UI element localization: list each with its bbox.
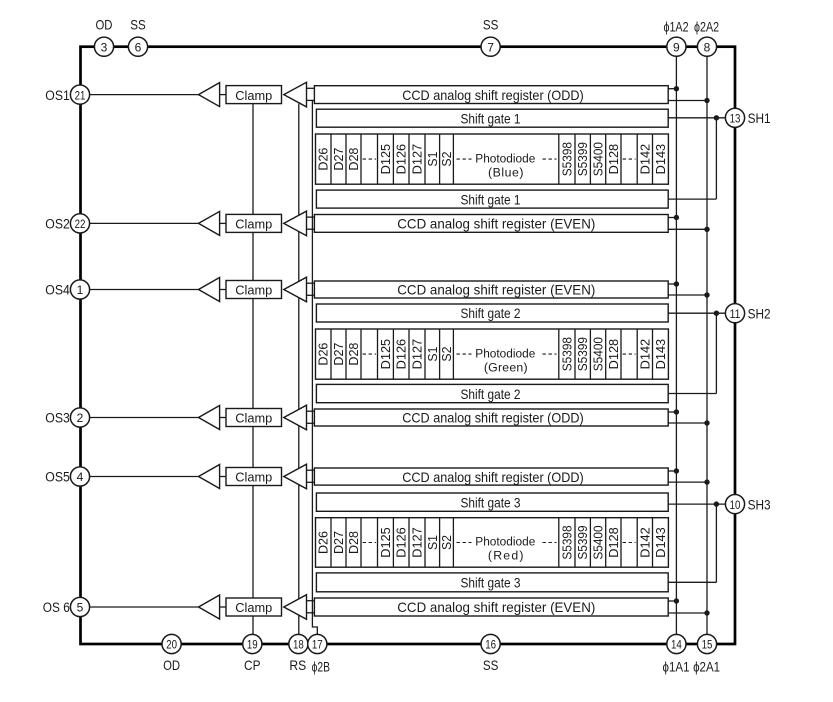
junction dot ϕ1 register 4 xyxy=(674,409,679,414)
svg-text:S2: S2 xyxy=(439,152,454,167)
svg-text:Clamp: Clamp xyxy=(235,283,272,298)
wire ϕ1A bus (pin 9 to pin 14) xyxy=(675,47,677,644)
svg-text:D27: D27 xyxy=(331,148,346,171)
amplifier A2a (output) xyxy=(199,211,220,235)
shift gate box SG2a xyxy=(316,304,668,322)
svg-text:D26: D26 xyxy=(316,343,331,366)
svg-text:Photodiode: Photodiode xyxy=(475,535,535,549)
wire SH2 vertical connector xyxy=(715,313,717,393)
svg-text:D127: D127 xyxy=(410,144,425,175)
pin 22 (OS2) xyxy=(70,214,89,233)
wire ϕ2B stub register 4 xyxy=(307,422,316,424)
svg-text:S5399: S5399 xyxy=(575,142,590,176)
wire output line OS2 xyxy=(90,222,199,224)
amplifier A2b (charge detection) xyxy=(284,211,307,236)
wire signal stub register 2 xyxy=(307,216,316,218)
wire ϕ1 stub register 5 xyxy=(668,470,676,472)
amplifier A3b (charge detection) xyxy=(284,277,307,302)
svg-text:ϕ1A1: ϕ1A1 xyxy=(663,659,690,674)
amplifier A4a (output) xyxy=(199,406,220,430)
pin 4 (OS5) xyxy=(70,467,89,486)
wire SH2 stub from upper shift gate xyxy=(668,312,725,314)
svg-text:4: 4 xyxy=(77,470,84,484)
svg-text:Photodiode: Photodiode xyxy=(475,151,535,165)
wire SH3 vertical connector xyxy=(715,504,717,582)
svg-text:17: 17 xyxy=(312,638,323,652)
svg-text:6: 6 xyxy=(135,40,142,54)
pin 1 (OS4) xyxy=(70,280,89,299)
svg-text:S5398: S5398 xyxy=(559,525,574,559)
svg-text:Clamp: Clamp xyxy=(235,88,272,103)
amplifier A3a (output) xyxy=(199,278,220,302)
svg-text:21: 21 xyxy=(75,88,86,102)
wire ϕ2 stub register 1 xyxy=(668,100,707,102)
svg-text:16: 16 xyxy=(485,638,496,652)
svg-text:D127: D127 xyxy=(410,339,425,370)
pin 6 (SS) xyxy=(128,37,147,56)
svg-text:CCD analog shift register (ODD: CCD analog shift register (ODD) xyxy=(402,88,584,103)
svg-text:Photodiode: Photodiode xyxy=(475,346,535,360)
shift gate box SG3a xyxy=(316,493,668,511)
junction dot ϕ2 register 1 xyxy=(704,98,709,103)
svg-text:OS3: OS3 xyxy=(45,411,70,426)
amplifier A5b (charge detection) xyxy=(284,464,307,489)
svg-text:S5400: S5400 xyxy=(591,525,606,559)
svg-text:20: 20 xyxy=(166,638,177,652)
CCD register box R6 xyxy=(314,598,668,616)
svg-text:D143: D143 xyxy=(653,339,668,370)
wire ϕ2B stub register 2 xyxy=(307,228,316,230)
svg-text:D126: D126 xyxy=(394,144,409,175)
pin 9 (ϕ1A2) xyxy=(667,37,686,56)
svg-text:OS4: OS4 xyxy=(45,283,70,298)
wire ϕ1 stub register 2 xyxy=(668,217,676,219)
svg-text:CCD analog shift register (EVE: CCD analog shift register (EVEN) xyxy=(397,217,595,232)
wire ϕ1 stub register 3 xyxy=(668,283,676,285)
junction dot ϕ1 register 2 xyxy=(674,215,679,220)
svg-text:CCD analog shift register (ODD: CCD analog shift register (ODD) xyxy=(402,470,584,485)
wire ϕ1 stub register 4 xyxy=(668,411,676,413)
svg-text:(Red): (Red) xyxy=(488,549,524,563)
svg-text:Shift gate 3: Shift gate 3 xyxy=(461,576,521,591)
wire ϕ2A bus (pin 8 to pin 15) xyxy=(706,47,708,644)
photodiode array row (Blue) xyxy=(316,134,669,184)
wire SH1 stub from upper shift gate xyxy=(668,117,725,119)
amplifier A1a (output) xyxy=(199,83,220,107)
wire signal stub register 5 xyxy=(307,469,316,471)
svg-text:SS: SS xyxy=(483,658,499,673)
svg-text:CCD analog shift register (EVE: CCD analog shift register (EVEN) xyxy=(397,283,595,298)
svg-text:D142: D142 xyxy=(637,527,652,558)
clamp block Clamp4 xyxy=(226,409,282,427)
pin 5 (OS 6) xyxy=(70,597,89,616)
wire CP bus (clamps to pin 19) xyxy=(252,104,254,644)
svg-text:S2: S2 xyxy=(439,535,454,550)
pin 18 (RS) xyxy=(289,634,308,653)
svg-text:D26: D26 xyxy=(316,531,331,554)
svg-text:D125: D125 xyxy=(378,527,393,558)
svg-text:(Green): (Green) xyxy=(484,360,528,374)
svg-text:OS1: OS1 xyxy=(45,88,70,103)
svg-text:Clamp: Clamp xyxy=(235,470,272,485)
wire amp-to-clamp connector OS3 xyxy=(220,417,226,419)
wire ϕ2B stub register 3 xyxy=(307,294,316,296)
wire signal stub register 6 xyxy=(307,600,316,602)
pin 2 (OS3) xyxy=(70,408,89,427)
pin 20 (OD) xyxy=(162,634,181,653)
svg-text:13: 13 xyxy=(730,112,741,126)
svg-text:Clamp: Clamp xyxy=(235,217,272,232)
pin 8 (ϕ2A2) xyxy=(697,37,716,56)
svg-text:15: 15 xyxy=(702,638,713,652)
junction dot ϕ2 register 3 xyxy=(704,292,709,297)
wire ϕ2B bus (pin 17) xyxy=(312,100,317,644)
photodiode array row (Green) xyxy=(316,329,669,379)
svg-text:2: 2 xyxy=(77,411,84,425)
wire SH3 stub from lower shift gate xyxy=(668,581,716,583)
pin 19 (CP) xyxy=(243,634,262,653)
svg-text:ϕ1A2: ϕ1A2 xyxy=(663,20,688,35)
wire ϕ2 stub register 4 xyxy=(668,422,707,424)
wire amp-to-clamp connector OS1 xyxy=(220,94,226,96)
svg-text:S5398: S5398 xyxy=(559,142,574,176)
svg-text:7: 7 xyxy=(487,40,494,54)
junction dot ϕ2 register 6 xyxy=(704,610,709,615)
svg-text:D143: D143 xyxy=(653,144,668,175)
svg-text:D27: D27 xyxy=(331,343,346,366)
svg-text:9: 9 xyxy=(673,40,680,54)
junction dot ϕ1 register 1 xyxy=(674,86,679,91)
svg-text:Shift gate 1: Shift gate 1 xyxy=(461,192,521,207)
wire output line OS 6 xyxy=(90,606,199,608)
shift gate box SG3b xyxy=(316,573,668,592)
svg-text:S5399: S5399 xyxy=(575,525,590,559)
junction dot ϕ1 register 6 xyxy=(674,598,679,603)
svg-text:S5400: S5400 xyxy=(591,142,606,176)
CCD register box R5 xyxy=(314,468,668,485)
CCD register box R3 xyxy=(314,281,668,298)
wire amp-to-clamp connector OS4 xyxy=(220,289,226,291)
svg-text:D28: D28 xyxy=(346,148,361,171)
wire signal stub register 4 xyxy=(307,410,316,412)
wire ϕ2B stub register 1 xyxy=(307,99,316,101)
wire amp-to-clamp connector OS5 xyxy=(220,476,226,478)
svg-text:D128: D128 xyxy=(606,527,621,558)
wire output line OS3 xyxy=(90,417,199,419)
wire output line OS1 xyxy=(90,94,199,96)
junction dot ϕ2 register 5 xyxy=(704,479,709,484)
svg-text:S5400: S5400 xyxy=(591,337,606,371)
svg-text:SH2: SH2 xyxy=(748,306,771,321)
svg-text:S5399: S5399 xyxy=(575,337,590,371)
svg-text:Shift gate 2: Shift gate 2 xyxy=(461,306,521,321)
junction dot SH3 xyxy=(714,501,719,506)
svg-text:1: 1 xyxy=(77,283,84,297)
svg-text:10: 10 xyxy=(730,498,741,512)
svg-text:SS: SS xyxy=(483,18,499,33)
clamp block Clamp2 xyxy=(226,214,282,232)
svg-text:D143: D143 xyxy=(653,527,668,558)
svg-text:RS: RS xyxy=(289,658,306,673)
svg-text:OD: OD xyxy=(96,18,113,33)
svg-text:D142: D142 xyxy=(637,144,652,175)
svg-text:Clamp: Clamp xyxy=(235,600,272,615)
pin 15 (ϕ2A1) xyxy=(697,634,716,653)
wire SH3 stub from upper shift gate xyxy=(668,503,725,505)
wire ϕ2 stub register 3 xyxy=(668,294,707,296)
clamp block Clamp3 xyxy=(226,281,282,299)
svg-text:D27: D27 xyxy=(331,531,346,554)
junction dot SH1 xyxy=(714,115,719,120)
shift gate box SG1b xyxy=(316,190,668,208)
junction dot ϕ2 register 4 xyxy=(704,420,709,425)
svg-text:S1: S1 xyxy=(425,347,440,362)
wire amp-to-clamp connector OS 6 xyxy=(220,606,226,608)
svg-text:ϕ2B: ϕ2B xyxy=(312,659,330,674)
svg-text:OS 6: OS 6 xyxy=(43,600,70,615)
svg-text:S5398: S5398 xyxy=(559,337,574,371)
wire amp-to-clamp connector OS2 xyxy=(220,222,226,224)
svg-text:(Blue): (Blue) xyxy=(488,165,524,179)
wire SH2 stub from lower shift gate xyxy=(668,393,716,395)
CCD register box R2 xyxy=(314,215,668,233)
svg-text:OS5: OS5 xyxy=(45,470,70,485)
svg-text:Shift gate 3: Shift gate 3 xyxy=(461,495,521,510)
svg-text:D26: D26 xyxy=(316,148,331,171)
pin 3 (OD) xyxy=(94,37,113,56)
wire ϕ2B stub register 5 xyxy=(307,481,316,483)
pin 17 (ϕ2B) xyxy=(308,634,327,653)
svg-text:CCD analog shift register (EVE: CCD analog shift register (EVEN) xyxy=(397,600,595,615)
chip outline border xyxy=(81,47,736,644)
pin 10 (SH3) xyxy=(725,495,744,514)
svg-text:D128: D128 xyxy=(606,144,621,175)
junction dot ϕ1 register 5 xyxy=(674,468,679,473)
junction dot ϕ2 register 2 xyxy=(704,227,709,232)
wire RS bus (pin 18) xyxy=(298,104,300,644)
wire signal stub register 3 xyxy=(307,282,316,284)
amplifier A5a (output) xyxy=(199,465,220,489)
shift gate box SG1a xyxy=(316,109,668,127)
wire output line OS5 xyxy=(90,476,199,478)
svg-text:22: 22 xyxy=(75,217,86,231)
svg-text:D128: D128 xyxy=(606,339,621,370)
svg-text:S1: S1 xyxy=(425,152,440,167)
svg-text:D126: D126 xyxy=(394,527,409,558)
svg-text:D28: D28 xyxy=(346,531,361,554)
svg-text:CP: CP xyxy=(244,658,261,673)
svg-text:D125: D125 xyxy=(378,144,393,175)
junction dot ϕ1 register 3 xyxy=(674,281,679,286)
svg-text:5: 5 xyxy=(77,601,84,615)
svg-text:OD: OD xyxy=(163,658,180,673)
amplifier A4b (charge detection) xyxy=(284,405,307,430)
amplifier A6b (charge detection) xyxy=(284,595,307,620)
pin 21 (OS1) xyxy=(70,85,89,104)
svg-text:8: 8 xyxy=(704,40,711,54)
amplifier A1b (charge detection) xyxy=(284,82,307,107)
svg-text:SH3: SH3 xyxy=(748,497,771,512)
svg-text:19: 19 xyxy=(247,638,258,652)
clamp block Clamp6 xyxy=(226,598,282,616)
junction dot SH2 xyxy=(714,311,719,316)
CCD register box R4 xyxy=(314,409,668,426)
svg-text:3: 3 xyxy=(101,40,108,54)
pin 14 (ϕ1A1) xyxy=(667,634,686,653)
clamp block Clamp5 xyxy=(226,468,282,486)
wire ϕ2 stub register 2 xyxy=(668,228,707,230)
wire SH1 stub from lower shift gate xyxy=(668,198,716,200)
svg-text:18: 18 xyxy=(293,638,304,652)
pin 11 (SH2) xyxy=(725,304,744,323)
wire output line OS4 xyxy=(90,289,199,291)
svg-text:ϕ2A1: ϕ2A1 xyxy=(693,659,720,674)
pin 13 (SH1) xyxy=(725,108,744,127)
wire SH1 vertical connector xyxy=(715,118,717,199)
wire ϕ2B stub register 6 xyxy=(307,612,316,614)
svg-text:OS2: OS2 xyxy=(45,217,70,232)
wire signal stub register 1 xyxy=(307,87,316,89)
wire ϕ1 stub register 1 xyxy=(668,88,676,90)
photodiode array row (Red) xyxy=(316,518,669,568)
amplifier A6a (output) xyxy=(199,595,220,619)
svg-text:SH1: SH1 xyxy=(748,111,771,126)
svg-text:D28: D28 xyxy=(346,343,361,366)
wire ϕ2 stub register 6 xyxy=(668,612,707,614)
svg-text:SS: SS xyxy=(130,18,146,33)
wire ϕ1 stub register 6 xyxy=(668,600,676,602)
svg-text:Shift gate 2: Shift gate 2 xyxy=(461,387,521,402)
shift gate box SG2b xyxy=(316,384,668,402)
pin 16 (SS) xyxy=(481,634,500,653)
svg-text:11: 11 xyxy=(730,307,741,321)
svg-text:D127: D127 xyxy=(410,527,425,558)
svg-text:CCD analog shift register (ODD: CCD analog shift register (ODD) xyxy=(402,411,584,426)
svg-text:S2: S2 xyxy=(439,347,454,362)
svg-text:14: 14 xyxy=(671,638,682,652)
svg-text:Clamp: Clamp xyxy=(235,411,272,426)
svg-text:D126: D126 xyxy=(394,339,409,370)
clamp block Clamp1 xyxy=(226,86,282,104)
svg-text:ϕ2A2: ϕ2A2 xyxy=(694,20,719,35)
svg-text:D125: D125 xyxy=(378,339,393,370)
svg-text:Shift gate 1: Shift gate 1 xyxy=(461,111,521,126)
svg-text:D142: D142 xyxy=(637,339,652,370)
wire ϕ2 stub register 5 xyxy=(668,481,707,483)
svg-text:S1: S1 xyxy=(425,535,440,550)
CCD register box R1 xyxy=(314,86,668,104)
pin 7 (SS) xyxy=(481,37,500,56)
